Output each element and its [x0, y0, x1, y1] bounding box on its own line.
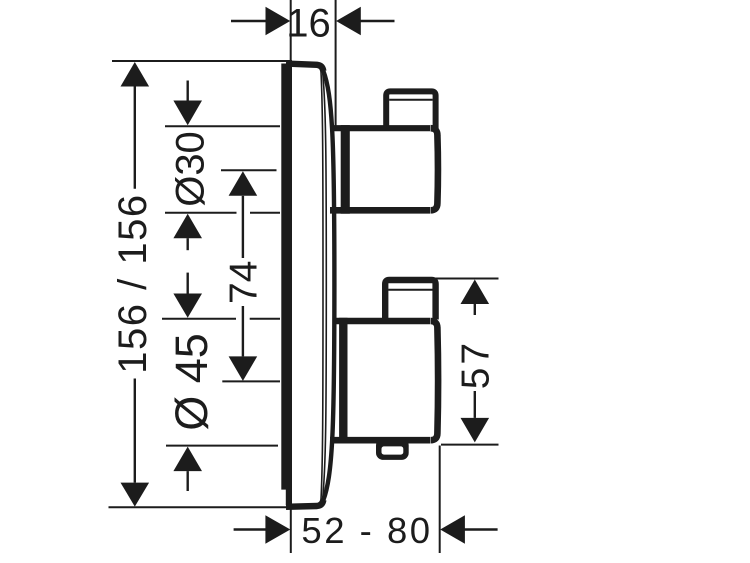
svg-text:74: 74 [223, 261, 266, 304]
svg-text:52 - 80: 52 - 80 [301, 510, 432, 551]
svg-text:Ø30: Ø30 [169, 131, 213, 207]
svg-text:57: 57 [454, 340, 497, 389]
svg-text:16: 16 [286, 2, 331, 46]
svg-text:156 / 156: 156 / 156 [111, 193, 155, 373]
svg-text:Ø 45: Ø 45 [166, 333, 217, 431]
